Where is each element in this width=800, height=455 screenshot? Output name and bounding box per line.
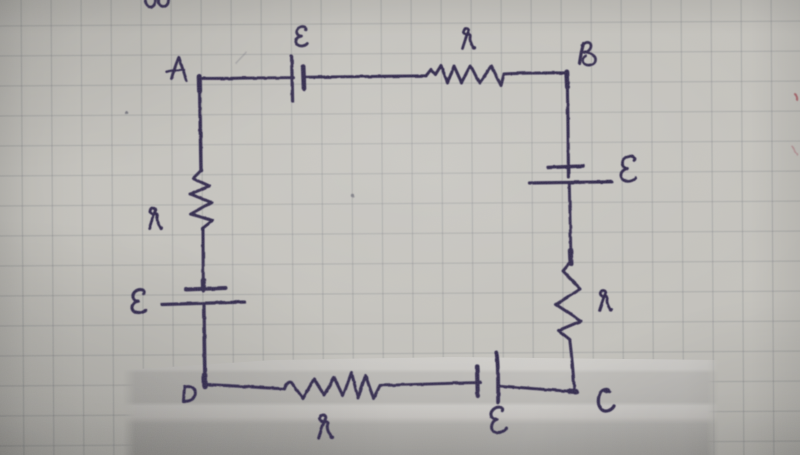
label E4 (emf): [132, 290, 146, 313]
wire B down to battery E2: [567, 73, 568, 177]
handwriting fragment at top edge: [146, 0, 169, 7]
node D label: [184, 386, 196, 401]
node C label: [598, 388, 614, 411]
node A corner junction: [197, 77, 202, 92]
node B label: [580, 42, 596, 65]
battery E1 (top): [292, 56, 304, 101]
wire A down to resistor R4: [200, 80, 202, 171]
wire R2 to node C: [570, 340, 575, 390]
wire D to resistor R3: [207, 385, 285, 389]
label R4 (r): [149, 208, 163, 230]
label R3 (r): [319, 415, 335, 439]
stray ink dot 2: [125, 112, 128, 115]
red pen mark 2: [792, 146, 798, 155]
resistor R3 (bottom): [285, 373, 381, 399]
node C corner junction: [570, 389, 577, 395]
label R2 (r): [600, 290, 614, 311]
stray pencil mark: [236, 53, 246, 64]
label E2 (emf): [621, 156, 636, 181]
wire R4 to battery E4: [202, 228, 205, 291]
label R1 (r): [463, 28, 477, 49]
wire C to battery E3: [501, 386, 574, 392]
red pen mark 1: [795, 94, 797, 100]
resistor R1 (top): [426, 66, 504, 86]
wire E4 down to node D: [204, 306, 205, 384]
wire E1 to resistor R1: [306, 76, 426, 77]
battery E4 (left): [162, 288, 246, 305]
battery E2 (right): [530, 166, 613, 183]
wire E3 to resistor R3: [381, 383, 481, 386]
junction blob E2-R2: [568, 250, 574, 264]
junction blob R4-E4: [201, 280, 206, 289]
node D corner junction: [202, 375, 208, 386]
wire R1 to node B: [504, 73, 567, 74]
wire E2 to resistor R2: [569, 185, 571, 259]
resistor R4 (left): [191, 171, 213, 229]
node A label: [167, 58, 187, 81]
resistor R2 (right): [556, 262, 581, 340]
node B corner junction: [564, 72, 570, 87]
battery E3 (bottom): [477, 353, 498, 403]
label E1 (emf): [296, 27, 307, 46]
stray ink dot 1: [351, 194, 354, 197]
wire A to battery E1: [201, 76, 294, 80]
label E3 (emf): [489, 406, 507, 433]
bottom band region (sheet edge): [123, 357, 719, 455]
